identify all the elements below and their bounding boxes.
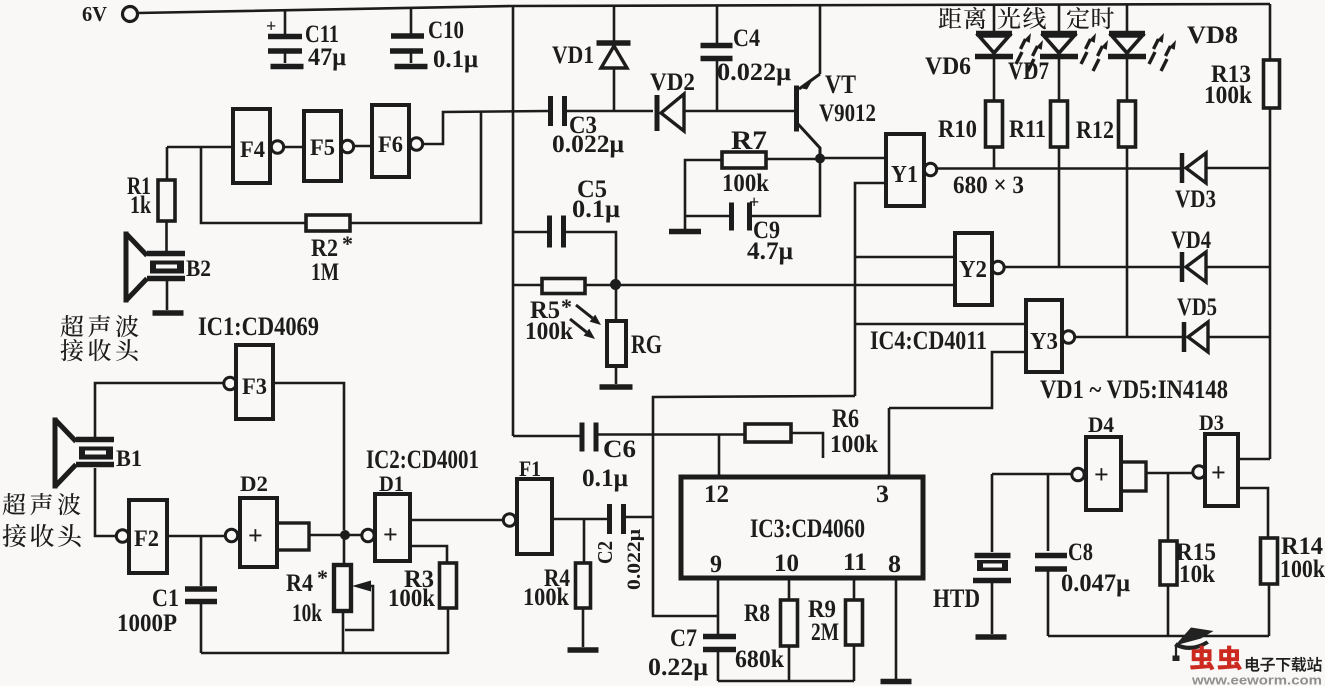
inverter F1 [503,514,515,526]
svg-text:VD1 ~ VD5:IN4148: VD1 ~ VD5:IN4148 [1040,375,1228,404]
capacitor C10 [410,9,413,34]
inverter F6 [372,105,409,177]
wire Y1 output row [937,167,1181,170]
svg-text:+: + [383,520,398,549]
svg-text:D3: D3 [1199,410,1224,435]
svg-text:R2: R2 [311,235,338,262]
ground under RG [615,366,618,384]
wire D1 output to F1 [410,519,503,522]
wire R5 row to Y2 lower input [585,284,955,287]
svg-text:R11: R11 [1009,116,1046,143]
svg-text:1k: 1k [130,192,151,219]
gate D3 (CD4001) [1193,466,1205,478]
resistor R8 [788,578,791,600]
gate D2 (CD4001) [225,529,237,541]
ground under HTD [976,634,1007,640]
svg-text:IC4:CD4011: IC4:CD4011 [870,326,987,355]
svg-text:IC2:CD4001: IC2:CD4001 [366,445,479,474]
svg-text:VD5: VD5 [1177,294,1217,321]
svg-text:R6: R6 [832,404,859,433]
svg-text:F6: F6 [378,132,403,157]
label 定时 [1067,7,1089,29]
svg-text:C4: C4 [733,25,760,52]
LED VD8 [1126,5,1129,32]
svg-text:Y2: Y2 [959,257,987,283]
svg-text:10k: 10k [1179,561,1215,588]
wire Y3 output row [1075,336,1183,339]
svg-text:R7: R7 [731,126,767,155]
svg-text:D1: D1 [379,471,404,496]
svg-text:Y1: Y1 [891,162,918,188]
capacitor C4 [716,5,719,43]
wire Y1 input from VT [820,157,886,160]
svg-text:C6: C6 [603,436,636,463]
svg-text:C1: C1 [152,585,179,612]
svg-text:HTD: HTD [933,584,980,613]
svg-text:100k: 100k [523,584,569,611]
svg-text:0.022μ: 0.022μ [552,131,624,158]
svg-text:9: 9 [710,551,722,578]
svg-text:F3: F3 [242,374,267,399]
svg-text:100k: 100k [722,170,769,197]
logo graduation cap [1175,628,1214,646]
wire Y1 lower input node column [855,183,886,396]
svg-text:VD4: VD4 [1171,227,1211,254]
LED VD6 [993,5,996,32]
resistor R1 [166,147,169,180]
svg-text:0.047μ: 0.047μ [1061,570,1130,597]
svg-text:100k: 100k [1204,82,1252,109]
transducer B2 ultrasonic receiver [126,232,147,303]
svg-text:RG: RG [631,330,662,359]
wire VD2 to VT base [684,110,794,113]
svg-text:0.022μ: 0.022μ [624,529,645,590]
wire D4 output to D3 [1146,472,1193,475]
svg-text:VD8: VD8 [1187,22,1238,49]
svg-text:680 × 3: 680 × 3 [953,172,1024,199]
svg-text:3: 3 [876,481,889,508]
wire F4-F5 [284,146,304,149]
resistor R9 [853,578,856,600]
diode VD2 [655,95,660,131]
svg-text:C2: C2 [593,541,617,564]
svg-text:R10: R10 [938,116,977,143]
wire D3 output up right rail [1238,458,1270,461]
wire F3 output down to D1 input node [273,383,344,530]
label 超声波 接收头 (B1) [3,493,26,515]
resistor R5* 100k [513,284,542,287]
wire bottom right row [1048,635,1269,638]
svg-text:2M: 2M [811,619,839,646]
resistor R12 [1126,59,1129,101]
LED VD7 [1058,5,1061,32]
svg-text:VT: VT [825,70,856,99]
svg-text:VD7: VD7 [1008,58,1049,85]
transducer B1 ultrasonic receiver [55,418,76,489]
svg-text:100k: 100k [525,318,573,345]
wire C7/R8/R9 bottom row [718,680,854,683]
node R5/RG junction [610,279,621,290]
resistor R14 [1238,488,1268,538]
resistor R11 [1058,59,1061,101]
svg-text:www.eeworm.com: www.eeworm.com [1191,673,1322,686]
inverter F5 [304,111,341,181]
ground under B2 [166,279,169,310]
diode VD3 [1180,153,1185,183]
IC U3 IC3 CD4060 [681,477,923,578]
label 超声波 接收头 (B2) [61,315,84,337]
wire B1 bottom to F2 input [95,468,116,536]
capacitor C6 [513,435,580,438]
wire F2 output to D2 [167,535,225,538]
svg-text:10k: 10k [292,600,322,627]
svg-text:D2: D2 [240,471,268,496]
svg-text:Y3: Y3 [1030,329,1058,355]
svg-text:8: 8 [888,551,901,578]
diode VD4 [1180,252,1185,282]
wire F4 input [167,146,233,149]
gate Y2 (CD4011) [855,256,955,259]
svg-text:0.22μ: 0.22μ [648,654,708,681]
gate Y1 (CD4011) [886,134,924,206]
label 光线 [998,7,1021,29]
capacitor C11 [284,11,287,34]
svg-text:VD2: VD2 [650,69,695,96]
wire F6 output up to C3 row [423,111,549,144]
label 距离 [939,8,962,29]
svg-text:1000P: 1000P [117,610,177,637]
svg-text:+: + [749,192,759,212]
wire bottom return row [201,652,448,655]
svg-text:12: 12 [704,481,729,508]
svg-text:B1: B1 [116,446,142,471]
wire F1 output [552,518,607,521]
svg-text:VD6: VD6 [925,53,971,80]
svg-text:+: + [266,16,276,36]
resistor R15 [1167,473,1170,541]
resistor R10 [993,59,996,101]
svg-text:11: 11 [843,549,867,576]
svg-text:*: * [561,294,572,319]
svg-text:4.7μ: 4.7μ [747,238,793,265]
svg-text:R12: R12 [1076,117,1114,144]
svg-text:R8: R8 [744,600,770,627]
capacitor C1 [200,536,203,586]
ground near C9 [684,216,687,229]
capacitor C3 [548,96,553,126]
svg-text:F5: F5 [310,135,335,160]
diode VD1 [613,6,616,43]
logo 虫虫 red [1190,646,1214,671]
capacitor C9 [685,215,729,218]
svg-text:0.022μ: 0.022μ [717,59,791,86]
resistor R4 100k [583,519,586,563]
wire +6V top rail [138,4,1271,13]
svg-text:0.1μ: 0.1μ [572,196,620,223]
resistor R7 [722,152,766,168]
svg-text:+: + [248,521,263,550]
resistor R3 [410,546,447,563]
svg-text:100k: 100k [830,431,878,458]
piezo sounder HTD [991,474,994,552]
svg-text:F1: F1 [519,456,541,481]
svg-text:10: 10 [774,550,799,577]
svg-text:+: + [1094,460,1109,489]
svg-text:47μ: 47μ [308,44,346,71]
svg-text:R4: R4 [286,570,313,597]
svg-text:1M: 1M [311,259,339,286]
svg-text:IC3:CD4060: IC3:CD4060 [750,514,865,543]
wire F5-F6 [353,145,372,148]
resistor R2 feedback [201,147,306,223]
svg-text:VD1: VD1 [552,42,594,69]
gate D4 (CD4001) [1072,468,1084,480]
ground under C10 [395,64,428,70]
wire B1 top to F3 input [95,383,224,437]
svg-text:+: + [1211,458,1226,487]
wire right vertical rail [1269,4,1272,60]
transistor VT V9012 PNP [794,86,799,132]
wire Y2 output row [1004,266,1181,269]
svg-text:*: * [317,565,328,590]
inverter F4 [233,109,270,183]
wire pin9 node column [653,396,855,616]
svg-text:V9012: V9012 [819,100,876,127]
svg-text:100k: 100k [388,585,435,612]
node VT collector junction [815,154,825,164]
svg-text:C7: C7 [670,625,697,652]
ground under C11 [271,64,304,70]
pin 9 [717,578,720,634]
svg-text:C8: C8 [1068,539,1093,566]
svg-text:0.1μ: 0.1μ [582,465,628,492]
node junction D2/D1/F3/R4 [340,530,350,540]
svg-text:F4: F4 [240,137,265,162]
gate Y3 (CD4011) [855,323,1026,326]
resistor R13 [1264,60,1280,108]
wire HTD to D4 input [992,473,1072,476]
svg-text:D4: D4 [1088,412,1114,437]
ground under pin 8 [895,578,898,679]
logo text 电子下载站 [1246,657,1260,672]
pin 3 [888,408,891,477]
photoresistor RG [615,284,618,321]
svg-text:IC1:CD4069: IC1:CD4069 [198,312,319,341]
inverter F2 [116,530,128,542]
capacitor C8 [1047,474,1050,551]
wire C3 to VD1/VD2 row [566,110,653,113]
svg-text:VD3: VD3 [1175,186,1216,213]
svg-text:F2: F2 [134,526,159,551]
pin 12 [718,434,721,477]
ground under R4 [568,647,599,653]
gate D1 (CD4001) [362,529,374,541]
svg-text:*: * [342,231,353,256]
wire R1 to B2 [165,221,168,252]
capacitor C7 [703,634,736,640]
capacitor C2 [607,504,612,534]
wire D2 output to D1 [309,534,362,537]
potentiometer R4* 10k [343,535,346,565]
wire +6V drop column [512,6,515,436]
svg-text:B2: B2 [186,256,211,281]
inverter F3 [224,377,236,389]
svg-text:6V: 6V [82,2,107,26]
svg-text:0.1μ: 0.1μ [433,46,478,73]
svg-text:C10: C10 [428,17,464,44]
resistor R6 [745,424,791,442]
capacitor C5 [513,231,547,234]
svg-text:100k: 100k [1280,556,1325,583]
diode VD5 [1182,322,1187,352]
svg-text:680k: 680k [735,646,784,673]
